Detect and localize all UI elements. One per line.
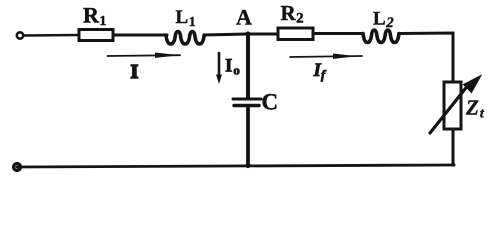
node A — [247, 33, 278, 36]
svg-text:I: I — [131, 61, 139, 83]
current arrow I0 — [218, 53, 221, 78]
wire node A down — [246, 34, 250, 98]
current arrow If — [290, 56, 362, 57]
wire C to bottom — [246, 106, 250, 166]
wire L1 to node A — [204, 34, 247, 35]
resistor R1 — [79, 30, 113, 41]
resistor R2 — [278, 28, 313, 40]
svg-text:L2: L2 — [373, 9, 394, 32]
terminal bottom-left — [14, 164, 21, 171]
svg-text:A: A — [236, 5, 252, 30]
svg-text:C: C — [262, 90, 279, 115]
junction node A — [245, 31, 250, 36]
svg-text:L1: L1 — [176, 7, 196, 30]
wire L2 to top-right corner — [399, 33, 453, 82]
inductor L1 — [166, 32, 204, 45]
wire R1 to L1 — [113, 34, 167, 37]
load Zt adjust arrow — [430, 84, 469, 133]
wire Zt to bottom corner — [453, 129, 454, 165]
capacitor C — [233, 98, 261, 101]
svg-text:Io: Io — [225, 56, 240, 78]
svg-text:Zt: Zt — [465, 96, 485, 122]
svg-text:R2: R2 — [281, 1, 304, 27]
junction bottom of branch — [245, 163, 250, 168]
svg-text:If: If — [313, 60, 327, 82]
load Zt box — [444, 82, 461, 129]
wire R2 to L2 — [313, 32, 363, 35]
terminal top-left — [17, 32, 23, 38]
wire bottom — [17, 165, 453, 167]
current arrow I — [108, 54, 181, 57]
wire input top — [24, 34, 79, 37]
inductor L2 — [363, 30, 399, 43]
svg-text:R1: R1 — [83, 3, 106, 30]
